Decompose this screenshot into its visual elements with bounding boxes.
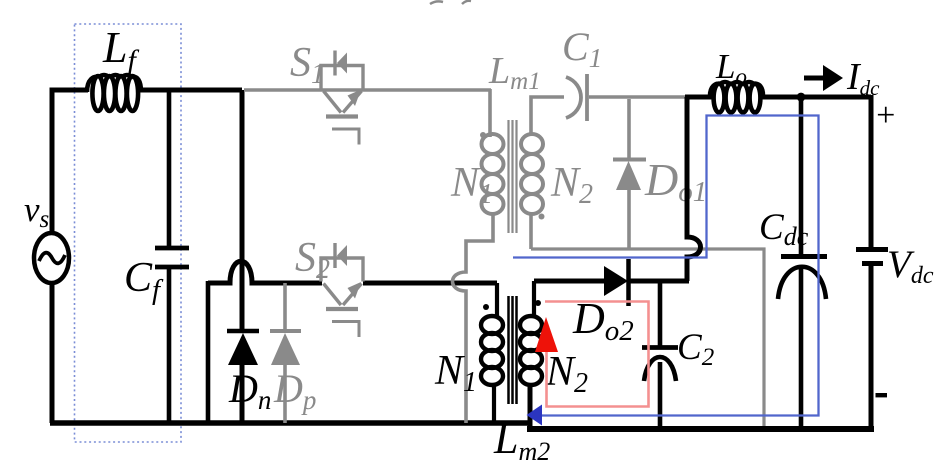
blue arrow: [527, 405, 543, 426]
battery bottom lead: [869, 265, 874, 429]
T1 polarity dot left: [480, 132, 486, 138]
capacitor Cdc curved plate: [778, 267, 826, 299]
wire: return leg x208 to rail: [206, 281, 211, 423]
wire: node down to Cdc: [799, 97, 804, 255]
wire: mid rail right of S2: [363, 281, 497, 286]
capacitor Cf bottom lead: [167, 267, 172, 423]
wire: gray return line to Cdc leg: [531, 249, 764, 429]
switch S1: [321, 51, 363, 145]
capacitor Cf: [155, 246, 189, 251]
wire: source bottom to rail: [50, 283, 55, 423]
red current loop: [545, 302, 649, 407]
wire: top-left loop from source to Lf: [52, 90, 88, 234]
top edge artifact marks: [430, 1, 443, 4]
label minus: [876, 393, 888, 397]
transformer T2 primary top lead: [495, 283, 499, 318]
T2 primary bottom lead: [492, 384, 496, 423]
battery Vdc plate long: [856, 247, 888, 252]
T1 secondary top lead to C1: [531, 97, 564, 134]
wire: C1 to riser: [589, 95, 686, 99]
diode Do2: [604, 266, 628, 296]
transformer T1 primary winding N1: [482, 134, 504, 214]
transformer T1 primary top lead: [488, 89, 492, 137]
wire: Do2 cathode to riser corner: [628, 279, 689, 284]
battery Vdc plate short: [862, 261, 883, 266]
wire: bottom rail right: [527, 426, 874, 432]
T1 primary bottom lead with hop over black wire: [453, 213, 494, 423]
wire: mid rail y283 with hop over x242: [208, 261, 322, 283]
capacitor Cdc bottom lead: [799, 268, 804, 429]
diode Dn: [227, 329, 259, 334]
capacitor C2 bottom lead: [658, 362, 663, 429]
capacitor C2 flat plate: [642, 345, 678, 350]
blue current loop: [513, 116, 819, 416]
wire: gray line S1 row: [244, 88, 491, 92]
arrow Idc: [804, 76, 826, 81]
svg-text:+: +: [874, 97, 897, 134]
inductor Lf: [87, 75, 141, 111]
T2 secondary top lead: [532, 281, 536, 318]
wire: bottom rail left: [50, 420, 530, 426]
filter box dashed outline: [75, 24, 182, 442]
wire: T2 secondary to Do2: [534, 279, 605, 284]
wire: riser top to Lo: [685, 95, 712, 100]
transformer T2 primary winding N1: [481, 316, 503, 385]
wire: vertical from top wire through hop down to Dn: [240, 90, 245, 330]
T1 secondary bottom lead: [529, 213, 533, 249]
capacitor C1 straight plate: [585, 74, 589, 121]
wire: Lf to node and corner: [140, 88, 242, 93]
capacitor C2 top lead: [658, 281, 663, 346]
capacitor C1 curved plate: [566, 77, 581, 118]
transformer T2 secondary winding N2: [520, 316, 542, 385]
switch S2: [321, 243, 363, 337]
red arrow: [535, 317, 558, 352]
wire: black riser with hop over gray line: [687, 97, 701, 281]
T2 polarity dot right: [535, 300, 541, 306]
T2 secondary bottom lead: [528, 384, 533, 429]
T1 polarity dot right: [539, 214, 545, 220]
wire: Lo to right corner: [762, 95, 871, 100]
T2 polarity dot left: [483, 304, 489, 310]
capacitor Cdc flat plate: [781, 254, 827, 259]
inductor Lo: [710, 82, 763, 113]
transformer T1 core: [509, 120, 517, 233]
diode Dp: [283, 283, 287, 330]
node dot: [797, 93, 806, 102]
AC source vs: [34, 233, 69, 283]
wire: right edge down to battery: [869, 95, 874, 247]
transformer T1 secondary winding N2: [521, 134, 543, 214]
diode Do1: [627, 99, 631, 158]
transformer T2 core: [509, 296, 517, 404]
capacitor Cf top lead: [167, 90, 172, 246]
capacitor C2 curved plate: [644, 357, 676, 381]
